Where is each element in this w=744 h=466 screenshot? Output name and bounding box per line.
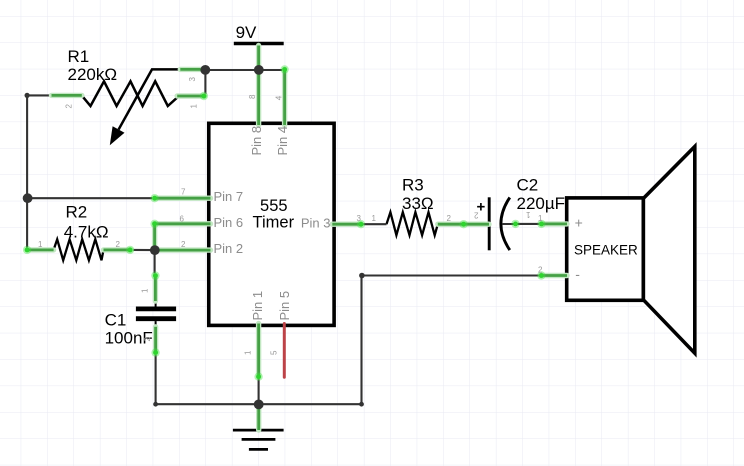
- svg-text:9V: 9V: [236, 23, 257, 42]
- resistor R3 zigzag: [387, 212, 438, 235]
- svg-text:2: 2: [538, 266, 543, 275]
- svg-text:220kΩ: 220kΩ: [68, 65, 118, 84]
- svg-text:1: 1: [244, 350, 253, 355]
- wire pin1 to rail: [258, 377, 260, 405]
- op-amp U1 : 555 timer IC body: [209, 123, 334, 325]
- wire R2 t1: [27, 248, 53, 251]
- wire bottom rail: [156, 403, 362, 405]
- wire speaker neg vertical: [360, 276, 362, 405]
- svg-text:1: 1: [538, 214, 543, 223]
- wire to pin7: [27, 197, 155, 199]
- ground symbol: [233, 430, 284, 449]
- svg-text:220µF: 220µF: [517, 194, 566, 213]
- green connection nodes: [23, 65, 546, 381]
- wire C1 bottom: [154, 327, 157, 353]
- power +9V symbol: [234, 23, 284, 44]
- svg-text:1: 1: [372, 214, 377, 223]
- svg-text:Pin 1: Pin 1: [250, 291, 265, 321]
- capacitor C2 (polarized): [489, 197, 515, 250]
- svg-text:1: 1: [190, 104, 199, 109]
- svg-text:1: 1: [141, 288, 150, 293]
- svg-text:8: 8: [248, 94, 257, 99]
- wire left vertical upper: [26, 95, 28, 198]
- svg-text:555: 555: [260, 197, 288, 215]
- wire top bus: [205, 69, 284, 71]
- svg-text:C1: C1: [105, 311, 127, 330]
- wire R3 out: [438, 223, 464, 226]
- wire R1 t1: [177, 95, 204, 98]
- svg-text:Timer: Timer: [253, 214, 295, 232]
- IC pin labels: [214, 126, 331, 321]
- wire pin7: [155, 197, 211, 200]
- wire pin6 to junction: [153, 224, 156, 250]
- green wires with halo: [27, 46, 567, 431]
- svg-text:Pin 8: Pin 8: [249, 126, 264, 156]
- svg-text:-: -: [575, 266, 580, 282]
- wire left vertical lower: [26, 198, 28, 250]
- wire R3 lead: [361, 223, 387, 225]
- svg-text:Pin 6: Pin 6: [214, 215, 244, 230]
- tiny wire pin numbers: [38, 77, 543, 356]
- wire junction to C1: [154, 276, 157, 301]
- wire R1 t3: [180, 68, 200, 71]
- wiper arrow of R1: [119, 69, 181, 129]
- resistor R1 (potentiometer) zigzag: [82, 69, 181, 145]
- svg-text:3: 3: [188, 77, 197, 82]
- endpoint dots bottom rail: [153, 402, 158, 407]
- svg-text:Pin 5: Pin 5: [277, 291, 292, 321]
- wire speaker neg: [541, 274, 567, 277]
- svg-text:Pin 4: Pin 4: [275, 126, 290, 156]
- svg-text:SPEAKER: SPEAKER: [574, 243, 638, 258]
- svg-text:6: 6: [180, 214, 185, 223]
- svg-text:2: 2: [474, 211, 479, 220]
- wire node to C2: [464, 223, 489, 226]
- wire junction down: [154, 250, 156, 276]
- bendpoint speaker neg: [359, 273, 365, 279]
- svg-text:1: 1: [38, 240, 43, 249]
- wire pin4: [283, 69, 286, 125]
- svg-text:4.7kΩ: 4.7kΩ: [64, 223, 109, 242]
- svg-text:33Ω: 33Ω: [402, 194, 434, 213]
- wire 9V drop: [257, 46, 260, 126]
- svg-text:3: 3: [357, 214, 362, 223]
- svg-text:Pin 7: Pin 7: [214, 189, 244, 204]
- wire C1 to rail: [155, 353, 157, 405]
- svg-text:2: 2: [116, 240, 121, 249]
- wire R1 pin2 stub: [27, 94, 51, 96]
- svg-text:2: 2: [447, 214, 452, 223]
- svg-text:R1: R1: [68, 47, 90, 66]
- svg-text:C2: C2: [517, 175, 539, 194]
- svg-text:2: 2: [181, 240, 186, 249]
- wire R2 t2: [104, 248, 131, 251]
- svg-text:2: 2: [65, 104, 74, 109]
- wire pin1: [257, 324, 260, 377]
- svg-text:1: 1: [526, 210, 531, 219]
- wire junction to R1 pin1: [204, 69, 206, 96]
- wire pin3: [332, 223, 361, 226]
- endpoint dot R1 t2: [25, 93, 30, 98]
- svg-text:7: 7: [181, 188, 186, 197]
- speaker LS1 body: [567, 147, 695, 354]
- svg-text:Pin 2: Pin 2: [214, 241, 244, 256]
- wire speaker neg horizontal: [362, 274, 542, 276]
- resistor R2 zigzag: [54, 239, 104, 260]
- wire ground stub: [257, 404, 260, 430]
- wire pin2: [155, 249, 211, 252]
- svg-text:4: 4: [274, 95, 283, 100]
- svg-text:Pin 3: Pin 3: [301, 216, 331, 231]
- capacitor C1 plates: [136, 301, 176, 327]
- wire pin6: [155, 222, 211, 225]
- wire R2 to junction: [131, 249, 155, 251]
- wire C2 to speaker pos: [541, 222, 567, 225]
- dark wires: [27, 69, 541, 404]
- svg-text:R3: R3: [402, 175, 424, 194]
- svg-text:2: 2: [143, 337, 152, 342]
- wire R1 t2: [52, 94, 82, 97]
- wire C2 to speaker lead: [516, 223, 542, 225]
- red wire pin5 (unconnected): [283, 324, 286, 378]
- svg-text:5: 5: [270, 350, 279, 355]
- svg-text:+: +: [575, 215, 583, 231]
- svg-text:R2: R2: [66, 202, 88, 221]
